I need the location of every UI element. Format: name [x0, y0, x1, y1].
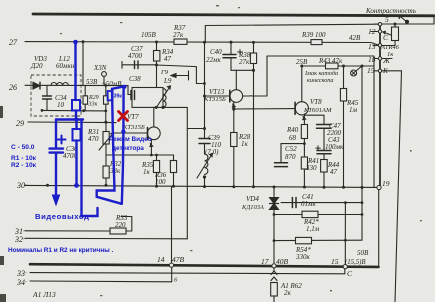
dashed filter box [31, 75, 81, 116]
capacitor C43 [317, 151, 331, 154]
svg-text:R2 - 10к: R2 - 10к [11, 162, 37, 169]
wire blue videooutput arrow [55, 153, 57, 196]
contrast arrow pointer [400, 16, 407, 22]
capacitor C38 [131, 91, 135, 100]
wire row 202 [281, 202, 362, 204]
potentiometer A1R46 body [392, 27, 399, 41]
wire pin30 rail [25, 185, 377, 187]
svg-text:VD4: VD4 [246, 195, 259, 203]
resistor R29 left [84, 85, 86, 110]
resistor R44 [321, 160, 328, 173]
svg-text:R43 47к: R43 47к [318, 57, 343, 65]
svg-text:VT8: VT8 [310, 98, 322, 106]
svg-text:1к: 1к [241, 140, 249, 148]
resistor R32 [103, 166, 109, 178]
potentiometer A1R46 leads [380, 24, 395, 46]
svg-text:33к: 33к [88, 102, 98, 108]
svg-text:1м: 1м [349, 106, 358, 114]
svg-text:КД103А: КД103А [241, 204, 264, 211]
svg-text:R1 - 10к: R1 - 10к [11, 155, 37, 162]
wire C40 R38 bottom link [231, 69, 254, 71]
wire pin14 vertical [171, 186, 173, 281]
detector coil box C38 L9 [132, 88, 163, 108]
diode VD4 bidirectional [270, 198, 279, 210]
wire bottom thick chassis line [30, 264, 379, 267]
svg-text:25В: 25В [296, 58, 308, 66]
resistor R33 [110, 228, 126, 234]
resistor R42 [302, 211, 318, 217]
svg-text:А1R46: А1R46 [380, 44, 400, 51]
svg-text:КТ601АМ: КТ601АМ [303, 107, 332, 114]
wire C37 node to C39 branch [157, 65, 205, 84]
scan smudges [0, 106, 6, 302]
wire blue hook U [82, 120, 98, 217]
wire pin17 vertical with VD4 [273, 187, 275, 266]
svg-text:14: 14 [157, 255, 165, 264]
svg-text:C40: C40 [210, 48, 222, 56]
wire C47 chain top [304, 115, 324, 124]
svg-text:870: 870 [285, 153, 296, 161]
svg-text:39к: 39к [114, 94, 123, 100]
svg-text:26: 26 [9, 83, 17, 92]
wire row 240 R54 [274, 239, 361, 241]
resistor R37 [174, 39, 187, 44]
resistor R38 [253, 42, 255, 70]
resistor R62 [271, 283, 278, 297]
svg-text:VТ13: VТ13 [209, 88, 225, 96]
test arrow G9 [174, 71, 189, 80]
wire pin12 stub [371, 31, 380, 33]
wire pin32 [25, 129, 187, 239]
wire C39 L10 branch [204, 43, 206, 187]
svg-text:Iмак катода: Iмак катода [304, 70, 338, 77]
svg-text:VT7: VT7 [127, 113, 139, 121]
svg-text:53В: 53В [86, 78, 98, 86]
resistor blue small [108, 91, 113, 100]
wire k bus [380, 71, 402, 302]
wire blue tap from rail27 [74, 42, 76, 100]
resistor R54 [296, 237, 312, 243]
resistor R28 [231, 133, 237, 147]
svg-text:68: 68 [289, 134, 297, 142]
pin circles 14 17 15 19 and connector pins [169, 23, 381, 269]
svg-text:L9: L9 [163, 77, 172, 85]
svg-text:47: 47 [164, 55, 172, 63]
resistor R34 [156, 42, 158, 65]
resistor R43 [326, 63, 339, 69]
svg-text:27к: 27к [173, 31, 184, 39]
capacitor C37 [122, 62, 157, 69]
inductor L9 [163, 89, 166, 108]
svg-text:29: 29 [16, 119, 24, 128]
svg-text:X3N: X3N [93, 64, 107, 72]
resistor R36 [173, 155, 175, 186]
resistor R29 right [105, 85, 107, 122]
svg-text:Номиналы R1 и R2 не критичны .: Номиналы R1 и R2 не критичны . [8, 247, 113, 254]
capacitor C blue [50, 149, 64, 153]
svg-text:40В: 40В [276, 257, 289, 266]
wire right inner vertical [361, 66, 363, 240]
svg-text:330к: 330к [295, 253, 311, 261]
svg-text:4700: 4700 [128, 52, 143, 60]
capacitor C52 [281, 144, 304, 163]
svg-text:1,1м: 1,1м [306, 225, 320, 233]
wire pin29 [28, 122, 147, 133]
wire R38 down to rail30 [253, 70, 255, 187]
wire pin34 [30, 280, 172, 283]
wire emitter row VT7 [106, 154, 174, 156]
svg-text:Г9: Г9 [160, 69, 169, 76]
svg-text:КТ315Б: КТ315Б [203, 96, 226, 103]
wire 25V row [302, 65, 374, 67]
inductor L10 [205, 154, 208, 174]
svg-text:С - 50.0: С - 50.0 [11, 144, 35, 151]
svg-text:кинескопа: кинескопа [307, 77, 333, 84]
resistor R45 [343, 66, 345, 187]
resistor R31 trimmer [105, 122, 107, 166]
test point [357, 66, 363, 71]
wire pin15 lead [344, 203, 346, 266]
svg-text:100: 100 [155, 178, 166, 186]
capacitor C47 [317, 125, 332, 129]
svg-text:1к: 1к [387, 51, 394, 58]
transistor VT13 [230, 90, 243, 103]
svg-text:60мкн: 60мкн [56, 62, 75, 70]
svg-text:470: 470 [88, 135, 99, 143]
wire box bottom to C39 line [163, 107, 205, 128]
svg-text:47: 47 [330, 168, 338, 176]
resistor R39 [311, 40, 322, 45]
svg-text:С52: С52 [285, 145, 297, 153]
svg-text:27к: 27к [239, 58, 250, 66]
svg-text:01мк: 01мк [301, 200, 316, 208]
wire R34 bottom to detector box [156, 65, 158, 88]
resistor R2 blue [75, 120, 77, 130]
wire VT13 emitter down R28 [233, 109, 235, 187]
wire L12 right to rail27 [82, 42, 84, 85]
wire VT13 collector top feed [243, 56, 375, 187]
svg-text:Контрастность: Контрастность [365, 7, 416, 15]
svg-text:К: К [382, 66, 389, 75]
wire blue to cap [55, 120, 57, 148]
svg-text:КТ315Б: КТ315Б [122, 124, 145, 131]
capacitor C34 [46, 85, 48, 110]
capacitor C40 [230, 42, 232, 70]
svg-text:R39 100: R39 100 [301, 31, 326, 39]
bottom pin labels [157, 255, 366, 284]
svg-text:(7,0): (7,0) [205, 148, 219, 156]
connector X module edge [379, 23, 381, 186]
svg-text:1к: 1к [143, 168, 151, 176]
pin labels left [9, 38, 27, 287]
capacitor C41 [292, 198, 296, 208]
svg-text:10: 10 [57, 101, 65, 109]
wire pin26 [25, 85, 131, 94]
wire pin33 [30, 268, 345, 274]
svg-text:42В: 42В [349, 34, 361, 42]
wire right bus pin19 to pin15 [378, 190, 380, 267]
svg-text:15: 15 [367, 66, 375, 75]
wire pin5 top [380, 15, 434, 24]
svg-text:2к: 2к [284, 289, 292, 297]
svg-text:5: 5 [385, 15, 389, 24]
svg-text:100мк: 100мк [325, 143, 344, 151]
wire pin31 [25, 230, 110, 232]
wire pin5 feed from module [205, 24, 380, 42]
blue annotation wires [50, 42, 125, 216]
svg-text:Видеовыход: Видеовыход [35, 212, 89, 221]
capacitor C39 [199, 139, 210, 144]
svg-text:(15,5)В: (15,5)В [345, 259, 366, 266]
svg-text:27: 27 [9, 38, 18, 47]
svg-text:С38: С38 [129, 75, 141, 83]
svg-text:19: 19 [382, 179, 390, 188]
svg-text:12: 12 [368, 27, 376, 36]
svg-text:R29: R29 [88, 95, 99, 101]
resistor R41 [301, 157, 307, 169]
svg-text:17: 17 [261, 257, 269, 266]
svg-text:Режим Видео: Режим Видео [109, 136, 152, 143]
transistor VT7 [147, 127, 160, 140]
svg-text:А1 Л13: А1 Л13 [32, 290, 56, 299]
svg-text:R40: R40 [286, 126, 299, 134]
blue notes text [8, 94, 152, 255]
red X mark [119, 112, 128, 121]
svg-text:220: 220 [115, 221, 126, 229]
svg-text:22мк: 22мк [206, 56, 221, 64]
wire blue left strand [97, 86, 125, 204]
resistor R62 leads and arrows [273, 267, 275, 302]
svg-text:Д20: Д20 [30, 62, 43, 70]
socket X3N [102, 72, 107, 77]
svg-text:18: 18 [368, 55, 376, 64]
svg-text:50В: 50В [357, 249, 369, 257]
svg-text:105В: 105В [141, 31, 157, 39]
wire zh bus [380, 58, 392, 60]
svg-text:15: 15 [331, 257, 339, 266]
connector pin labels right [367, 15, 391, 188]
svg-text:детектора: детектора [112, 145, 144, 152]
wire VT13 emitter row [234, 108, 295, 110]
wire blue right strand [122, 87, 124, 204]
resistor R40 [301, 125, 307, 139]
potentiometer A1R46 wiper arrow [383, 32, 391, 35]
resistor R1 blue [72, 100, 80, 111]
inductor L12 [51, 83, 68, 86]
svg-text:13: 13 [368, 42, 376, 51]
wire pin27 rail 42V [25, 42, 380, 46]
resistor R35 [156, 155, 158, 186]
transistor VT8 [295, 102, 308, 115]
svg-text:47В: 47В [172, 255, 185, 264]
svg-text:330: 330 [305, 164, 317, 172]
wire row 214 R42 [274, 214, 362, 216]
wire blue branch row [56, 118, 83, 120]
diode VD3 [33, 82, 40, 89]
wire top thick bus [33, 14, 434, 16]
